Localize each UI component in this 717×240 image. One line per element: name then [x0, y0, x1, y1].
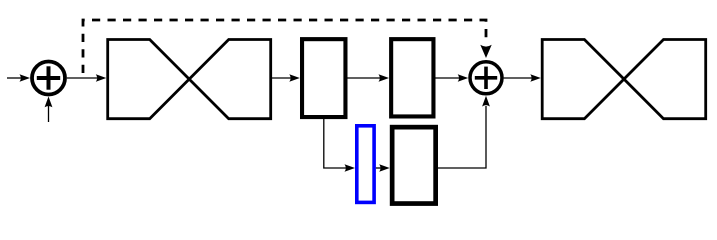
wire: R1 to R2: [348, 77, 381, 79]
arrowhead: into R3: [379, 164, 390, 172]
block R2: [391, 39, 433, 116]
wire: R2 to S2: [436, 77, 460, 79]
block: lattice/butterfly 2: [542, 40, 706, 119]
arrowhead: up into S1: [45, 97, 53, 108]
arrowhead: into blue block: [345, 164, 356, 172]
wire: R3 up into S2: [438, 106, 486, 168]
block R1: [302, 39, 345, 117]
dashed feedback wire: [83, 20, 486, 78]
summing junction S1: [32, 62, 65, 95]
arrowhead: input into S1: [20, 74, 31, 82]
arrowhead: into R2: [379, 74, 390, 82]
wire: input line: [7, 77, 21, 79]
block: blue delay: [357, 126, 374, 203]
wire: lattice 1 to R1: [272, 77, 291, 79]
arrowhead: up into S2 bottom: [482, 96, 490, 107]
arrowhead: into S2: [458, 74, 469, 82]
summing junction S2: [470, 62, 502, 94]
wire: blue block to R3: [376, 167, 381, 169]
arrowhead: into lattice 2: [530, 74, 541, 82]
wire: bottom input arrow into S1: [48, 106, 50, 122]
arrowhead: into R1: [289, 74, 300, 82]
arrowhead: into lattice 1: [96, 74, 107, 82]
wire: S1 to lattice 1: [67, 77, 97, 79]
block R3: [392, 127, 436, 203]
block: lattice/butterfly 1: [108, 40, 271, 119]
wire: R1 down to blue block: [324, 119, 347, 168]
arrowhead: dashed down into S2: [480, 45, 491, 58]
wire: S2 to lattice 2: [504, 77, 532, 79]
